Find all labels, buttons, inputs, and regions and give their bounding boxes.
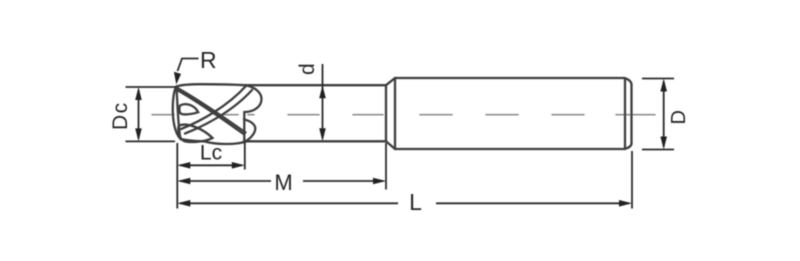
d arrow up head bbox=[319, 85, 326, 98]
L right extension line bbox=[631, 151, 633, 209]
cutter head bottom edge bbox=[181, 139, 249, 144]
D dimension arrow line bbox=[663, 82, 665, 147]
Lc dimension line bbox=[180, 164, 242, 166]
D arrow down head bbox=[660, 137, 667, 150]
D arrow up head bbox=[660, 79, 667, 92]
shank right outer edge bbox=[630, 84, 632, 144]
left extension line Lc M L bbox=[176, 143, 178, 209]
shank left chamfer top bbox=[386, 78, 395, 85]
Dc top extension line bbox=[126, 86, 177, 88]
M arrow right head bbox=[373, 178, 386, 185]
shank bottom line bbox=[395, 148, 625, 150]
d arrow down head bbox=[319, 128, 326, 141]
shank left chamfer bottom bbox=[386, 141, 395, 149]
D top extension line bbox=[642, 78, 674, 80]
svg-text:D: D bbox=[668, 110, 690, 124]
svg-text:d: d bbox=[296, 63, 319, 75]
M dimension line right segment bbox=[303, 180, 384, 182]
R leader line bbox=[178, 59, 199, 72]
d dimension line bbox=[322, 64, 324, 139]
shank right chamfer bottom bbox=[625, 144, 632, 149]
flute helix ascending upper line bbox=[181, 85, 247, 129]
svg-text:L: L bbox=[409, 189, 422, 215]
end face gash lower teardrop bbox=[178, 125, 212, 142]
Lc arrow right head bbox=[232, 162, 245, 169]
svg-text:Lc: Lc bbox=[200, 142, 222, 165]
flute runout upper hook bbox=[244, 85, 261, 112]
Dc arrow up head bbox=[135, 87, 142, 100]
L dimension line right segment bbox=[436, 202, 629, 204]
cutter head top edge bbox=[177, 84, 246, 86]
neck bottom line bbox=[244, 140, 386, 142]
shank left end face vertical bbox=[385, 85, 387, 141]
M dimension line left segment bbox=[180, 180, 271, 182]
shank left vertical bbox=[394, 78, 396, 149]
svg-text:R: R bbox=[200, 47, 217, 73]
centerline bbox=[152, 114, 655, 116]
Dc arrow down head bbox=[135, 128, 142, 141]
cutter head left outer arc bbox=[173, 87, 181, 139]
M arrow left head bbox=[177, 178, 190, 185]
svg-text:Dc: Dc bbox=[109, 101, 132, 130]
M right extension line bbox=[385, 143, 387, 190]
cutter head left inner arc bbox=[176, 87, 180, 139]
Dc bottom extension line bbox=[126, 140, 176, 142]
Lc arrow left head bbox=[177, 162, 190, 169]
flute helix descending lower line bbox=[177, 90, 244, 134]
head right vertical edge bbox=[243, 112, 245, 141]
Dc dimension arrow line bbox=[138, 90, 140, 139]
shank top line bbox=[395, 77, 624, 79]
neck top line bbox=[245, 84, 386, 86]
svg-text:M: M bbox=[274, 170, 292, 195]
L arrow left head bbox=[177, 200, 190, 207]
D bottom extension line bbox=[642, 149, 674, 151]
flute runout lower hook bbox=[244, 120, 255, 142]
Lc right extension line bbox=[244, 142, 246, 170]
shank right chamfer top bbox=[624, 78, 632, 84]
end face gash upper teardrop bbox=[179, 104, 198, 114]
shank right inner vertical bbox=[624, 78, 626, 149]
flute helix descending upper line bbox=[177, 88, 246, 133]
L dimension line left segment bbox=[180, 202, 398, 204]
R leader arrowhead bbox=[174, 72, 181, 85]
L arrow right head bbox=[619, 200, 632, 207]
flute helix ascending lower line bbox=[185, 90, 252, 134]
